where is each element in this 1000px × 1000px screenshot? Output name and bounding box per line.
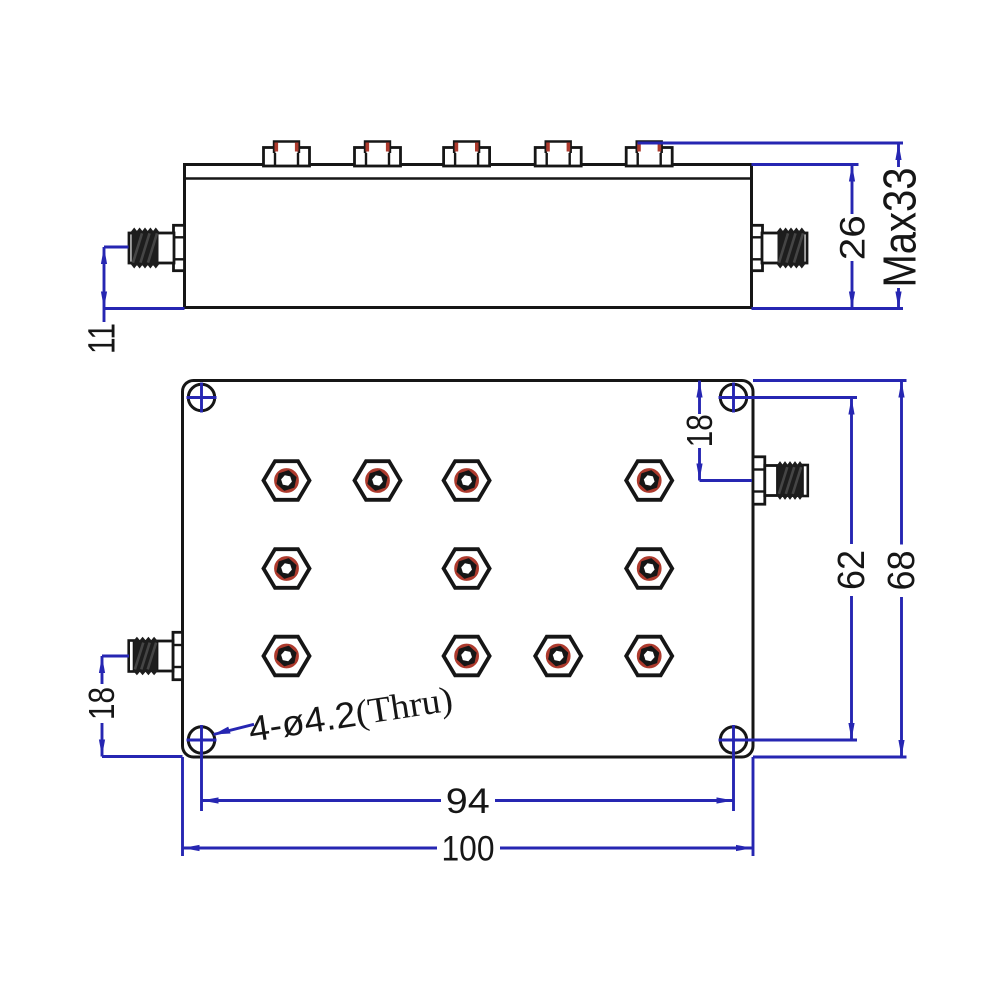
corner hole top-right	[720, 384, 746, 410]
dimension baseline extension left	[104, 307, 185, 310]
dimension 100	[183, 830, 754, 869]
hex screw S8	[264, 637, 310, 676]
hex screw S9	[444, 637, 490, 676]
side view body	[185, 165, 752, 308]
dimension Max33	[874, 143, 926, 309]
dimension 62	[831, 398, 873, 741]
hex screw S11	[626, 637, 672, 676]
hex screw S4	[626, 461, 672, 500]
dimension 18 left extension bottom	[102, 755, 183, 758]
dimension 100 extension right	[752, 757, 755, 856]
hex screw S6	[444, 549, 490, 588]
svg-text:68: 68	[881, 551, 923, 591]
SMA connector J2 right (plan view)	[753, 457, 808, 504]
hex nut N3 on top	[444, 142, 490, 167]
hole centerline cross bottom-right / 62+94 extension	[719, 725, 858, 811]
hex nut N2 on top	[355, 142, 401, 167]
hex screw S3	[444, 461, 490, 500]
dimension 18 right extension line	[700, 479, 753, 482]
hex screw S7	[626, 549, 672, 588]
dimension 26 extension line	[752, 163, 859, 166]
hole centerline cross top-left	[187, 383, 217, 413]
hex screw S2	[355, 461, 401, 500]
dimension 100 extension left	[181, 757, 184, 856]
hex nut N5 on top	[626, 142, 672, 167]
svg-text:18: 18	[679, 414, 720, 447]
svg-text:26: 26	[834, 215, 873, 260]
corner hole bottom-left	[188, 727, 214, 753]
body top extension line for 68	[753, 379, 907, 382]
hole centerline cross top-right / 62 extension	[719, 383, 858, 413]
SMA connector J2 right (side view)	[752, 225, 808, 270]
svg-text:94: 94	[446, 782, 490, 821]
svg-text:18: 18	[81, 687, 122, 720]
svg-text:Max33: Max33	[874, 168, 926, 288]
corner hole top-left	[188, 384, 214, 410]
SMA connector J1 left (plan view)	[129, 632, 183, 679]
hex screw S1	[264, 461, 310, 500]
hex nut N1 on top	[264, 142, 310, 167]
dimension 18 right	[679, 381, 720, 481]
svg-text:62: 62	[831, 550, 873, 590]
dimension 18 left extension top	[102, 655, 129, 658]
hex nut N4 on top	[535, 142, 581, 167]
svg-text:100: 100	[442, 830, 495, 869]
hex screw S10	[535, 637, 581, 676]
hex screw S5	[264, 549, 310, 588]
dimension 18 left	[81, 656, 122, 757]
dimension 68	[881, 381, 923, 758]
body bottom extension line for 68	[753, 756, 907, 759]
dimension 11 extension line at connector axis	[104, 246, 129, 249]
side view top band line	[185, 177, 752, 180]
hole centerline cross bottom-left / 94 extension	[187, 725, 217, 811]
dimension 94	[202, 782, 734, 821]
SMA connector J1 left (side view)	[129, 225, 185, 270]
dimension 11	[82, 247, 124, 354]
plan view body	[183, 381, 754, 758]
dimension 26	[834, 165, 873, 309]
svg-text:11: 11	[82, 323, 124, 354]
leader arrow for thru-holes note	[214, 724, 255, 734]
corner hole bottom-right	[720, 727, 746, 753]
dimension baseline extension right	[752, 307, 904, 310]
dimension Max33 extension line	[638, 142, 904, 145]
